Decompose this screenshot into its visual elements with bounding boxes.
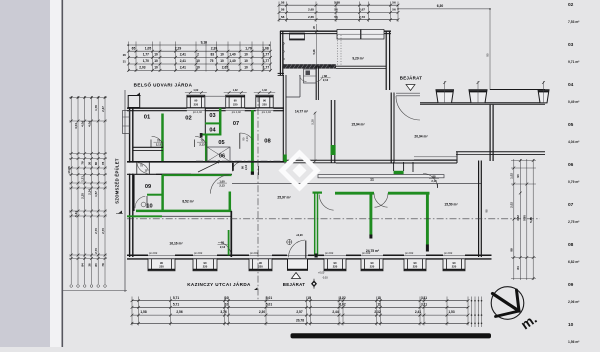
app sidebar strip bbox=[0, 0, 50, 347]
top right dimension block bbox=[278, 0, 491, 22]
right wing right wall bbox=[490, 105, 493, 162]
door label 1,00 bbox=[217, 179, 227, 187]
svg-text:2,75 m²: 2,75 m² bbox=[568, 220, 580, 224]
far right wall bbox=[491, 152, 545, 155]
svg-text:BELSŐ UDVARI JÁRDA: BELSŐ UDVARI JÁRDA bbox=[134, 82, 193, 88]
svg-text:e0,90: e0,90 bbox=[296, 234, 303, 237]
svg-text:1,77: 1,77 bbox=[263, 59, 269, 63]
svg-text:1,08: 1,08 bbox=[262, 46, 269, 50]
door room 07 arc bbox=[240, 133, 253, 149]
svg-text:0,79 m²: 0,79 m² bbox=[568, 180, 580, 184]
level flag upper bbox=[134, 93, 141, 96]
top exterior wall bbox=[127, 108, 284, 111]
svg-text:0,49 m²: 0,49 m² bbox=[568, 100, 580, 104]
dim line right of top wing bbox=[486, 9, 490, 90]
svg-text:220: 220 bbox=[258, 265, 263, 269]
svg-text:1,00: 1,00 bbox=[219, 179, 225, 183]
band door arcs bbox=[137, 162, 150, 174]
svg-text:10: 10 bbox=[225, 302, 229, 306]
svg-text:220: 220 bbox=[233, 102, 238, 106]
svg-text:90: 90 bbox=[371, 261, 374, 265]
svg-text:10: 10 bbox=[568, 322, 574, 328]
pilaster P1 bbox=[436, 81, 454, 103]
svg-text:10: 10 bbox=[154, 66, 158, 70]
svg-text:84: 84 bbox=[516, 266, 520, 270]
room schedule column bbox=[568, 2, 580, 344]
svg-text:2,29: 2,29 bbox=[175, 46, 182, 50]
window W1 top wall bbox=[185, 89, 207, 114]
svg-text:3,22: 3,22 bbox=[339, 296, 345, 300]
wing-court wall join bbox=[280, 70, 282, 75]
svg-text:06: 06 bbox=[568, 162, 574, 168]
svg-text:20,94 m²: 20,94 m² bbox=[414, 135, 428, 139]
svg-text:1,56 m²: 1,56 m² bbox=[568, 340, 580, 344]
svg-text:220: 220 bbox=[333, 265, 338, 269]
svg-text:SZOMSZÉD ÉPÜLET: SZOMSZÉD ÉPÜLET bbox=[115, 158, 120, 204]
section line vertical bbox=[257, 95, 259, 300]
svg-text:5,01: 5,01 bbox=[266, 296, 272, 300]
svg-text:56: 56 bbox=[334, 8, 338, 12]
svg-text:3,11: 3,11 bbox=[421, 296, 427, 300]
svg-text:1,77: 1,77 bbox=[143, 53, 149, 57]
wall 15,50 right bbox=[479, 161, 482, 258]
svg-text:2: 2 bbox=[197, 53, 199, 57]
shaft rooms 05-06 bbox=[207, 147, 230, 162]
svg-text:05: 05 bbox=[568, 122, 574, 128]
svg-text:20,78: 20,78 bbox=[296, 318, 304, 322]
door arc partition B bbox=[374, 193, 388, 207]
court side walls bbox=[394, 162, 413, 172]
level flag left bbox=[116, 211, 123, 214]
svg-text:90: 90 bbox=[160, 261, 163, 265]
svg-text:14,77 m²: 14,77 m² bbox=[295, 110, 309, 114]
green sill courtyard left wall bbox=[283, 155, 287, 163]
svg-text:5,28: 5,28 bbox=[312, 49, 316, 55]
green top wall 8,52 bbox=[162, 174, 232, 176]
svg-text:02: 02 bbox=[185, 116, 191, 122]
green partition A bbox=[335, 193, 374, 239]
svg-text:1,40: 1,40 bbox=[229, 59, 235, 63]
svg-text:10: 10 bbox=[196, 66, 200, 70]
svg-text:83: 83 bbox=[211, 53, 215, 57]
bench 11 outline bbox=[318, 175, 444, 178]
door arc 25,97 bbox=[319, 195, 333, 211]
svg-text:58: 58 bbox=[221, 241, 224, 245]
svg-text:24,75 m²: 24,75 m² bbox=[366, 249, 380, 253]
svg-text:5,01: 5,01 bbox=[266, 302, 272, 306]
svg-text:3,76: 3,76 bbox=[220, 310, 226, 314]
svg-text:2,03: 2,03 bbox=[139, 66, 145, 70]
green double wall 25,97 right bbox=[315, 192, 318, 258]
chimney blob bbox=[229, 163, 234, 171]
svg-text:5,85: 5,85 bbox=[529, 217, 533, 223]
upper wing left wall bbox=[280, 31, 282, 70]
hall right wall bbox=[391, 93, 394, 164]
svg-text:1,02: 1,02 bbox=[262, 89, 267, 92]
upper wing top wall bbox=[280, 31, 391, 33]
svg-text:2,13: 2,13 bbox=[219, 184, 225, 188]
svg-text:1,76: 1,76 bbox=[94, 105, 98, 111]
left dimension chain bbox=[67, 96, 107, 287]
thin top line lower wing bbox=[232, 183, 481, 185]
svg-text:2,70: 2,70 bbox=[101, 228, 105, 234]
green wall 02-05 bbox=[205, 135, 208, 163]
svg-text:pm 1,02: pm 1,02 bbox=[232, 111, 242, 114]
stair room bbox=[304, 66, 319, 100]
svg-text:1,77: 1,77 bbox=[263, 53, 269, 57]
svg-text:5,71: 5,71 bbox=[173, 296, 179, 300]
svg-text:02: 02 bbox=[568, 2, 574, 8]
green vent courtyard wall bbox=[331, 145, 336, 155]
svg-text:10: 10 bbox=[244, 53, 248, 57]
svg-text:88: 88 bbox=[324, 74, 327, 78]
svg-text:220: 220 bbox=[452, 265, 457, 269]
svg-text:98: 98 bbox=[510, 248, 514, 252]
svg-text:5,71: 5,71 bbox=[173, 302, 179, 306]
pilaster P2 bbox=[469, 81, 487, 103]
svg-text:5,88: 5,88 bbox=[334, 0, 340, 4]
svg-text:BEJÁRAT: BEJÁRAT bbox=[283, 282, 306, 287]
entrance door arc bbox=[396, 96, 420, 120]
door label 58 bbox=[218, 241, 228, 249]
svg-text:56: 56 bbox=[334, 15, 338, 19]
main street entrance door bbox=[287, 234, 329, 280]
svg-text:56: 56 bbox=[392, 0, 396, 4]
svg-text:10: 10 bbox=[307, 296, 311, 300]
svg-text:2,30: 2,30 bbox=[259, 310, 265, 314]
svg-text:90: 90 bbox=[234, 99, 237, 103]
watermark diamond logo bbox=[282, 153, 317, 188]
green sill entrance court bbox=[394, 171, 404, 174]
step wall vertical bbox=[456, 152, 458, 163]
svg-text:11: 11 bbox=[377, 302, 381, 306]
right wing top wall bbox=[420, 90, 545, 105]
svg-text:15,94 m²: 15,94 m² bbox=[351, 123, 365, 127]
svg-text:2,73: 2,73 bbox=[359, 15, 365, 19]
svg-text:2,41: 2,41 bbox=[415, 310, 421, 314]
door arc 8,52 to corridor bbox=[210, 175, 229, 194]
door room 08 arc bbox=[232, 162, 258, 175]
door label 88 upper bbox=[321, 74, 331, 82]
svg-text:9,71 m²: 9,71 m² bbox=[568, 60, 580, 64]
green wall rooms 01-02 bbox=[161, 114, 164, 163]
window B4 bottom wall bbox=[324, 252, 346, 271]
svg-text:2,56: 2,56 bbox=[176, 310, 182, 314]
svg-text:07: 07 bbox=[233, 121, 239, 127]
svg-text:15,50 m²: 15,50 m² bbox=[444, 203, 458, 207]
window B3 bottom wall bbox=[249, 252, 272, 271]
svg-text:36: 36 bbox=[87, 162, 91, 166]
svg-text:2,41: 2,41 bbox=[180, 53, 186, 57]
bottom right chain verticals bbox=[471, 297, 483, 328]
svg-text:2,32: 2,32 bbox=[374, 310, 380, 314]
svg-text:09: 09 bbox=[145, 184, 151, 190]
svg-text:10: 10 bbox=[220, 59, 224, 63]
svg-text:26: 26 bbox=[123, 53, 127, 57]
green wall 16,16 right bbox=[228, 230, 230, 255]
wall face dim dots bbox=[283, 42, 285, 66]
svg-text:6,02: 6,02 bbox=[339, 302, 345, 306]
svg-text:2,39: 2,39 bbox=[211, 46, 218, 50]
top wall window B bbox=[337, 30, 361, 40]
door 16,16 arc bbox=[218, 242, 231, 253]
svg-text:09: 09 bbox=[568, 282, 574, 288]
corridor door arcs bbox=[300, 75, 324, 81]
door 10 arc bbox=[135, 196, 147, 208]
svg-text:2,70: 2,70 bbox=[94, 228, 98, 234]
svg-text:pm ±02: pm ±02 bbox=[194, 252, 203, 255]
svg-text:+0,00: +0,00 bbox=[318, 272, 325, 275]
svg-text:1,05: 1,05 bbox=[145, 46, 152, 50]
svg-text:2,13: 2,13 bbox=[244, 164, 248, 170]
svg-text:pm ±02: pm ±02 bbox=[325, 252, 334, 255]
svg-text:1,53: 1,53 bbox=[448, 310, 454, 314]
courtyard left wall bbox=[283, 75, 286, 162]
svg-text:75: 75 bbox=[210, 59, 214, 63]
svg-text:2,24: 2,24 bbox=[87, 189, 91, 195]
green wall room 03-04 bbox=[205, 122, 221, 124]
svg-text:04: 04 bbox=[568, 82, 574, 88]
svg-text:58: 58 bbox=[281, 15, 285, 19]
courtyard dim line bbox=[311, 112, 317, 163]
svg-text:78: 78 bbox=[101, 162, 105, 166]
north arrow bbox=[491, 287, 524, 320]
window W3 top wall bbox=[254, 89, 275, 114]
left exterior wall bbox=[130, 108, 133, 258]
bottom dimension chain bbox=[131, 296, 470, 326]
svg-text:-0,03: -0,03 bbox=[322, 277, 328, 280]
entrance threshold bbox=[396, 93, 420, 96]
left wall bay window bbox=[123, 111, 130, 134]
svg-text:220: 220 bbox=[203, 265, 208, 269]
svg-text:78: 78 bbox=[81, 161, 85, 165]
door room 07 label bbox=[242, 136, 249, 142]
svg-text:7,53 m²: 7,53 m² bbox=[568, 20, 580, 24]
svg-text:8,52 m²: 8,52 m² bbox=[182, 200, 194, 204]
green divider 09-10 bbox=[147, 194, 163, 196]
svg-text:3,82: 3,82 bbox=[516, 215, 520, 221]
svg-text:1,02: 1,02 bbox=[510, 173, 514, 179]
svg-text:1,21: 1,21 bbox=[81, 176, 85, 182]
wing bottom thin wall bbox=[336, 66, 386, 68]
svg-text:pm 1,02: pm 1,02 bbox=[193, 111, 203, 114]
svg-text:2,13: 2,13 bbox=[199, 143, 205, 147]
page edge line bbox=[62, 0, 64, 347]
svg-text:4,04: 4,04 bbox=[87, 121, 91, 127]
svg-text:2,65: 2,65 bbox=[308, 8, 314, 12]
svg-text:220: 220 bbox=[370, 265, 375, 269]
svg-text:220: 220 bbox=[413, 265, 418, 269]
courtyard top wall bbox=[278, 73, 284, 75]
svg-text:90: 90 bbox=[194, 99, 197, 103]
svg-text:11: 11 bbox=[377, 296, 381, 300]
bottom exterior wall bbox=[127, 255, 492, 259]
pilaster P3 partial bbox=[538, 81, 549, 103]
svg-text:2,13: 2,13 bbox=[323, 78, 329, 82]
svg-text:58: 58 bbox=[281, 0, 285, 4]
window B6 bottom wall bbox=[404, 252, 426, 271]
svg-text:90: 90 bbox=[453, 261, 456, 265]
window W2 top wall bbox=[224, 89, 247, 114]
door graphic room 02 bbox=[195, 136, 208, 147]
svg-text:90: 90 bbox=[334, 261, 337, 265]
svg-text:25,97 m²: 25,97 m² bbox=[277, 196, 291, 200]
svg-text:9,29 m²: 9,29 m² bbox=[352, 57, 364, 61]
svg-text:10: 10 bbox=[154, 59, 158, 63]
svg-text:75: 75 bbox=[157, 138, 160, 142]
courtyard vestibule bbox=[286, 75, 300, 97]
blob left of 04 bbox=[200, 133, 203, 138]
svg-text:5,28: 5,28 bbox=[311, 119, 315, 125]
svg-text:98: 98 bbox=[485, 209, 489, 212]
svg-text:6,82 m²: 6,82 m² bbox=[568, 260, 580, 264]
svg-text:2,67: 2,67 bbox=[359, 8, 365, 12]
wall 09 left bbox=[133, 175, 135, 211]
svg-text:2,02: 2,02 bbox=[510, 202, 514, 208]
entrance arrow upper bbox=[406, 85, 415, 91]
window B1 bottom wall bbox=[148, 252, 175, 271]
wall 16,16 right bbox=[230, 211, 232, 257]
svg-text:08: 08 bbox=[264, 139, 271, 145]
svg-text:90: 90 bbox=[516, 174, 520, 178]
svg-text:10: 10 bbox=[196, 59, 200, 63]
svg-text:5,95: 5,95 bbox=[523, 215, 527, 221]
svg-text:84: 84 bbox=[81, 263, 85, 267]
title block bar bbox=[291, 333, 492, 338]
svg-text:2,13: 2,13 bbox=[431, 179, 437, 183]
svg-text:5,31: 5,31 bbox=[74, 211, 78, 217]
svg-text:1,77: 1,77 bbox=[263, 66, 269, 70]
property boundary line bbox=[124, 90, 126, 292]
page margin white band bbox=[50, 0, 62, 347]
middle wall band bbox=[127, 147, 284, 174]
svg-text:pm ±02: pm ±02 bbox=[405, 252, 414, 255]
green wall 09 right bbox=[161, 175, 164, 211]
svg-text:75: 75 bbox=[201, 138, 204, 142]
door room 08 label bbox=[241, 164, 248, 170]
svg-text:2,13: 2,13 bbox=[245, 136, 249, 142]
svg-text:pm 1,02: pm 1,02 bbox=[262, 111, 272, 114]
right dimension chain bbox=[510, 159, 536, 280]
svg-text:90: 90 bbox=[263, 99, 266, 103]
door 15,50 arc bbox=[423, 174, 438, 189]
svg-text:pm ±02: pm ±02 bbox=[444, 252, 453, 255]
hall bottom wall bbox=[336, 160, 457, 163]
svg-text:90: 90 bbox=[204, 261, 207, 265]
green stub left bbox=[127, 215, 162, 217]
svg-text:90: 90 bbox=[259, 261, 262, 265]
door label 88 bbox=[429, 175, 439, 183]
svg-text:36: 36 bbox=[87, 263, 91, 267]
svg-text:BEJÁRAT: BEJÁRAT bbox=[400, 76, 423, 81]
svg-text:01: 01 bbox=[144, 115, 151, 121]
step lines bbox=[414, 157, 457, 160]
svg-text:220: 220 bbox=[194, 102, 199, 106]
top wall window C bbox=[361, 30, 384, 40]
svg-text:2,06 m²: 2,06 m² bbox=[568, 300, 580, 304]
section line horizontal bbox=[127, 218, 540, 220]
step wall horizontal bbox=[456, 152, 492, 155]
slash circle 10 bbox=[141, 202, 146, 207]
svg-text:88: 88 bbox=[433, 175, 436, 179]
svg-text:2,65: 2,65 bbox=[222, 66, 228, 70]
svg-text:9,16: 9,16 bbox=[201, 40, 208, 44]
svg-text:07: 07 bbox=[568, 202, 574, 208]
upper wing right wall bbox=[386, 31, 389, 90]
svg-text:16,16 m²: 16,16 m² bbox=[169, 242, 183, 246]
svg-text:2,37: 2,37 bbox=[101, 106, 105, 112]
svg-text:KAZINCZY UTCAI JÁRDA: KAZINCZY UTCAI JÁRDA bbox=[187, 281, 251, 287]
window B7 bottom wall bbox=[443, 252, 465, 271]
svg-text:80: 80 bbox=[94, 263, 98, 267]
green partition B bbox=[388, 193, 430, 252]
svg-text:2,57: 2,57 bbox=[296, 310, 302, 314]
top wall window A bbox=[290, 33, 305, 40]
svg-text:03: 03 bbox=[568, 42, 574, 48]
window B2 bottom wall bbox=[193, 252, 217, 271]
svg-text:08: 08 bbox=[568, 242, 574, 248]
kazinczy tick mark bbox=[254, 287, 257, 290]
svg-text:31: 31 bbox=[123, 60, 127, 64]
wall room 02-03 bbox=[204, 108, 206, 136]
sidewalk line bottom left bbox=[63, 290, 127, 292]
hatched band wall bbox=[283, 64, 336, 68]
svg-text:10: 10 bbox=[244, 59, 248, 63]
svg-text:6,30: 6,30 bbox=[437, 4, 444, 8]
svg-text:1,40: 1,40 bbox=[229, 53, 235, 57]
svg-text:1,02: 1,02 bbox=[233, 89, 238, 92]
section line horizontal short bbox=[196, 160, 282, 162]
svg-text:65: 65 bbox=[132, 46, 136, 50]
courtyard bottom wall bbox=[284, 160, 336, 163]
svg-text:10,65: 10,65 bbox=[67, 166, 71, 174]
svg-text:2,41: 2,41 bbox=[180, 66, 186, 70]
svg-text:2,13: 2,13 bbox=[220, 245, 226, 249]
svg-text:2,44: 2,44 bbox=[332, 310, 338, 314]
room 03 recess niche bbox=[205, 96, 226, 107]
corner pier bbox=[128, 96, 140, 108]
window B5 bottom wall bbox=[361, 252, 383, 271]
dim line inside 9,29 bbox=[312, 24, 318, 64]
svg-text:1,70: 1,70 bbox=[143, 59, 149, 63]
thin line y216 bbox=[162, 215, 232, 217]
north diamond symbol bbox=[311, 279, 317, 289]
svg-text:2,25: 2,25 bbox=[81, 193, 85, 199]
courtyard right wall bbox=[331, 100, 335, 163]
svg-text:1,70: 1,70 bbox=[245, 46, 252, 50]
svg-text:3,11: 3,11 bbox=[421, 302, 427, 306]
svg-text:1,58: 1,58 bbox=[140, 310, 146, 314]
svg-text:220: 220 bbox=[262, 102, 267, 106]
svg-text:10: 10 bbox=[220, 53, 224, 57]
green bottom wall 8,52 bbox=[136, 210, 232, 213]
svg-text:80: 80 bbox=[94, 162, 98, 166]
svg-text:220: 220 bbox=[159, 265, 164, 269]
top dimension chain block bbox=[123, 40, 272, 71]
svg-text:4,04: 4,04 bbox=[81, 121, 85, 127]
svg-text:58: 58 bbox=[281, 8, 285, 12]
dotted removed wall bbox=[338, 35, 342, 66]
svg-text:4,04 m²: 4,04 m² bbox=[568, 140, 580, 144]
svg-text:4,04: 4,04 bbox=[74, 123, 78, 129]
svg-text:90: 90 bbox=[414, 261, 417, 265]
green wall room 03 right bbox=[219, 108, 222, 136]
svg-text:1,57: 1,57 bbox=[94, 191, 98, 197]
svg-text:78: 78 bbox=[101, 263, 105, 267]
svg-text:03: 03 bbox=[209, 113, 215, 119]
green right wall 8,52 bbox=[229, 192, 232, 212]
svg-text:56: 56 bbox=[392, 8, 396, 12]
